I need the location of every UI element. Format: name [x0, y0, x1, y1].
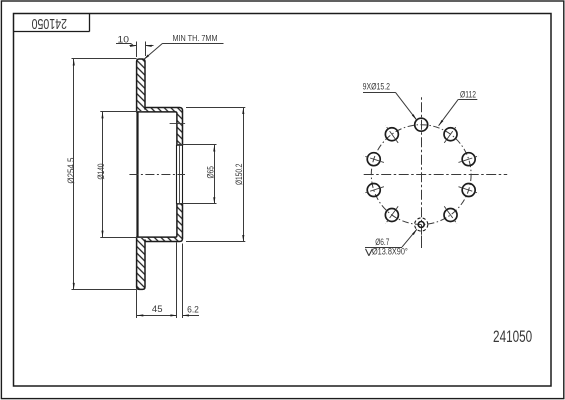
svg-text:Ø6.7: Ø6.7	[375, 237, 389, 247]
svg-text:Ø254.5: Ø254.5	[66, 158, 76, 184]
svg-text:Ø65: Ø65	[206, 166, 216, 179]
svg-text:MIN TH. 7MM: MIN TH. 7MM	[173, 33, 218, 43]
svg-text:Ø112: Ø112	[460, 90, 476, 101]
svg-text:Ø150.2: Ø150.2	[234, 164, 244, 186]
svg-text:9XØ15.2: 9XØ15.2	[363, 82, 390, 93]
svg-text:Ø140: Ø140	[96, 164, 106, 180]
svg-text:Ø13.8X90°: Ø13.8X90°	[372, 247, 408, 257]
svg-text:6.2: 6.2	[187, 305, 199, 316]
svg-text:45: 45	[152, 304, 163, 315]
svg-text:241050: 241050	[493, 328, 532, 346]
svg-text:241050: 241050	[32, 15, 68, 32]
svg-text:10: 10	[118, 35, 130, 46]
